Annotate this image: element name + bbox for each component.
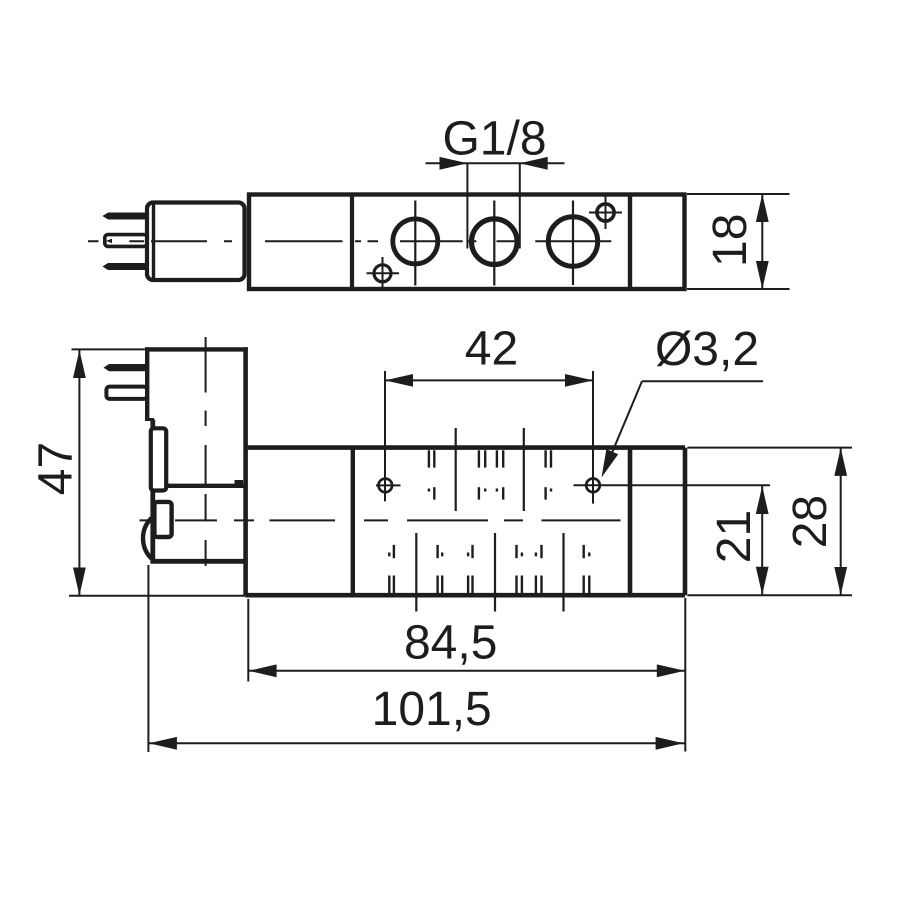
solenoid vertical centerline — [205, 337, 207, 566]
hidden line pair B — [479, 450, 485, 499]
port 1 vertical crosshair — [414, 201, 416, 286]
84,5 / 101,5 right extension line — [684, 598, 686, 752]
G1/8 right extension line — [519, 163, 521, 248]
84,5 left arrow — [249, 664, 277, 677]
28 bottom extension line — [688, 594, 853, 596]
solenoid right edge / body left edge (front view) — [243, 347, 248, 595]
28 bottom arrow — [834, 567, 847, 595]
valve body (top view) — [249, 195, 685, 290]
solenoid left edge upper (front view) — [145, 347, 149, 420]
42 dimension line — [385, 379, 593, 381]
hole L horizontal crosshair — [376, 484, 401, 486]
G1/8 left arrow — [440, 157, 468, 170]
18 bottom arrow — [756, 261, 769, 289]
18 top extension line — [687, 193, 790, 195]
84,5 dimension line — [248, 670, 685, 672]
101,5 right arrow — [656, 737, 684, 750]
mounting hole TR vertical crosshair — [605, 195, 607, 230]
28 top extension line — [688, 447, 853, 449]
horizontal centerline (front view) — [140, 519, 621, 521]
svg-text:47: 47 — [29, 442, 82, 495]
solenoid left step — [145, 418, 154, 421]
svg-text:G1/8: G1/8 — [442, 113, 546, 166]
tab 1 (front view) — [151, 428, 166, 490]
valve body bottom edge (front view) — [246, 593, 685, 598]
leader arrowhead — [602, 449, 619, 477]
42 right arrow — [565, 374, 593, 387]
divider bump — [235, 480, 244, 486]
84,5 right arrow — [657, 664, 685, 677]
pin 1 (front view, solid) — [104, 364, 148, 371]
hidden line pair C — [497, 450, 503, 499]
divider line 1 (top view) — [350, 195, 354, 290]
divider line 2 (front view) — [628, 448, 633, 596]
port stub line upper A — [455, 428, 457, 511]
valve body right edge (front view) — [683, 448, 688, 596]
hidden line pair A — [429, 450, 434, 499]
47 top extension line — [72, 348, 148, 350]
port 3 vertical crosshair — [572, 201, 574, 286]
svg-text:18: 18 — [704, 214, 757, 267]
port stub line lower 1 — [415, 533, 417, 612]
18 dimension line — [761, 194, 763, 289]
hidden line pair G — [468, 545, 472, 593]
solenoid divider line (front view) — [151, 484, 244, 488]
hidden line pair D — [546, 450, 551, 499]
port stub line lower 2 — [494, 533, 496, 612]
101,5 dimension line — [148, 742, 684, 744]
port 2 circle — [472, 219, 518, 265]
84,5 left extension line — [247, 599, 249, 682]
G1/8 dimension line — [426, 162, 565, 164]
18 top arrow — [756, 194, 769, 222]
svg-text:21: 21 — [708, 510, 761, 563]
hole R vertical line / 42 right extension — [592, 371, 594, 504]
hidden line pair I — [536, 545, 542, 593]
hidden line pair F — [438, 545, 443, 593]
mounting hole TR horizontal crosshair — [589, 212, 622, 214]
solenoid left edge lower (front view) — [150, 420, 155, 564]
pin 2 tip wedge — [106, 239, 112, 244]
28 top arrow — [834, 448, 847, 476]
svg-text:28: 28 — [784, 495, 837, 548]
divider line 1 (front view) — [351, 448, 355, 596]
hole R horizontal crosshair / 21 top extension — [574, 484, 771, 486]
pin 3 (top view, solid) — [103, 263, 148, 270]
tab 2 (front view) — [154, 502, 171, 537]
clip arc (front view) — [143, 518, 152, 560]
101,5 left extension line — [147, 565, 149, 752]
mounting hole right (front view) — [586, 479, 600, 493]
hidden line pair J — [584, 545, 590, 593]
port stub line lower 3 — [562, 533, 564, 612]
svg-text:42: 42 — [465, 323, 518, 376]
solenoid cap inner line (top view) — [152, 204, 155, 279]
47 dimension line — [78, 349, 80, 595]
leader slanted segment — [606, 381, 642, 467]
hole L vertical line / 42 left extension — [384, 371, 386, 501]
pin 2 (top view, outline) — [105, 235, 147, 247]
21 top arrow — [756, 486, 769, 514]
101,5 left arrow — [149, 737, 177, 750]
mounting hole BL vertical crosshair — [382, 257, 384, 290]
47 top arrow — [73, 350, 86, 378]
mounting hole BL horizontal crosshair — [367, 272, 400, 274]
mounting hole bottom-left (top view) — [374, 265, 391, 282]
body bottom extension to left (47 dim) — [69, 595, 246, 597]
solenoid top edge (front view) — [145, 347, 248, 351]
42 left arrow — [385, 374, 413, 387]
svg-text:101,5: 101,5 — [372, 683, 492, 736]
mounting hole top-right (top view) — [597, 204, 614, 221]
port 3 circle — [548, 217, 597, 266]
hidden line pair H — [517, 545, 522, 593]
valve body top edge (front view) — [246, 445, 685, 450]
G1/8 left extension line — [466, 163, 468, 248]
port stub line upper B — [523, 428, 525, 511]
leader horizontal segment — [642, 380, 763, 382]
mounting hole left (front view) — [379, 479, 393, 493]
21 dimension line — [761, 485, 763, 595]
pin 1 (top view, solid) — [103, 213, 148, 220]
divider line 2 (top view) — [628, 195, 632, 290]
svg-text:Ø3,2: Ø3,2 — [655, 323, 759, 376]
horizontal centerline (top view) — [88, 240, 611, 242]
18 bottom extension line — [687, 288, 790, 290]
port 2 vertical crosshair — [493, 201, 495, 286]
port 1 circle — [393, 219, 438, 264]
28 dimension line — [840, 448, 842, 596]
hidden line pair E — [389, 545, 394, 593]
solenoid bottom edge (front view) — [151, 559, 248, 564]
svg-text:84,5: 84,5 — [404, 617, 497, 670]
47 bottom arrow — [73, 568, 86, 596]
21 bottom arrow — [756, 567, 769, 595]
G1/8 right arrow — [520, 157, 548, 170]
solenoid body (top view) — [147, 203, 245, 281]
pin 2 (front view, outline) — [106, 387, 147, 399]
